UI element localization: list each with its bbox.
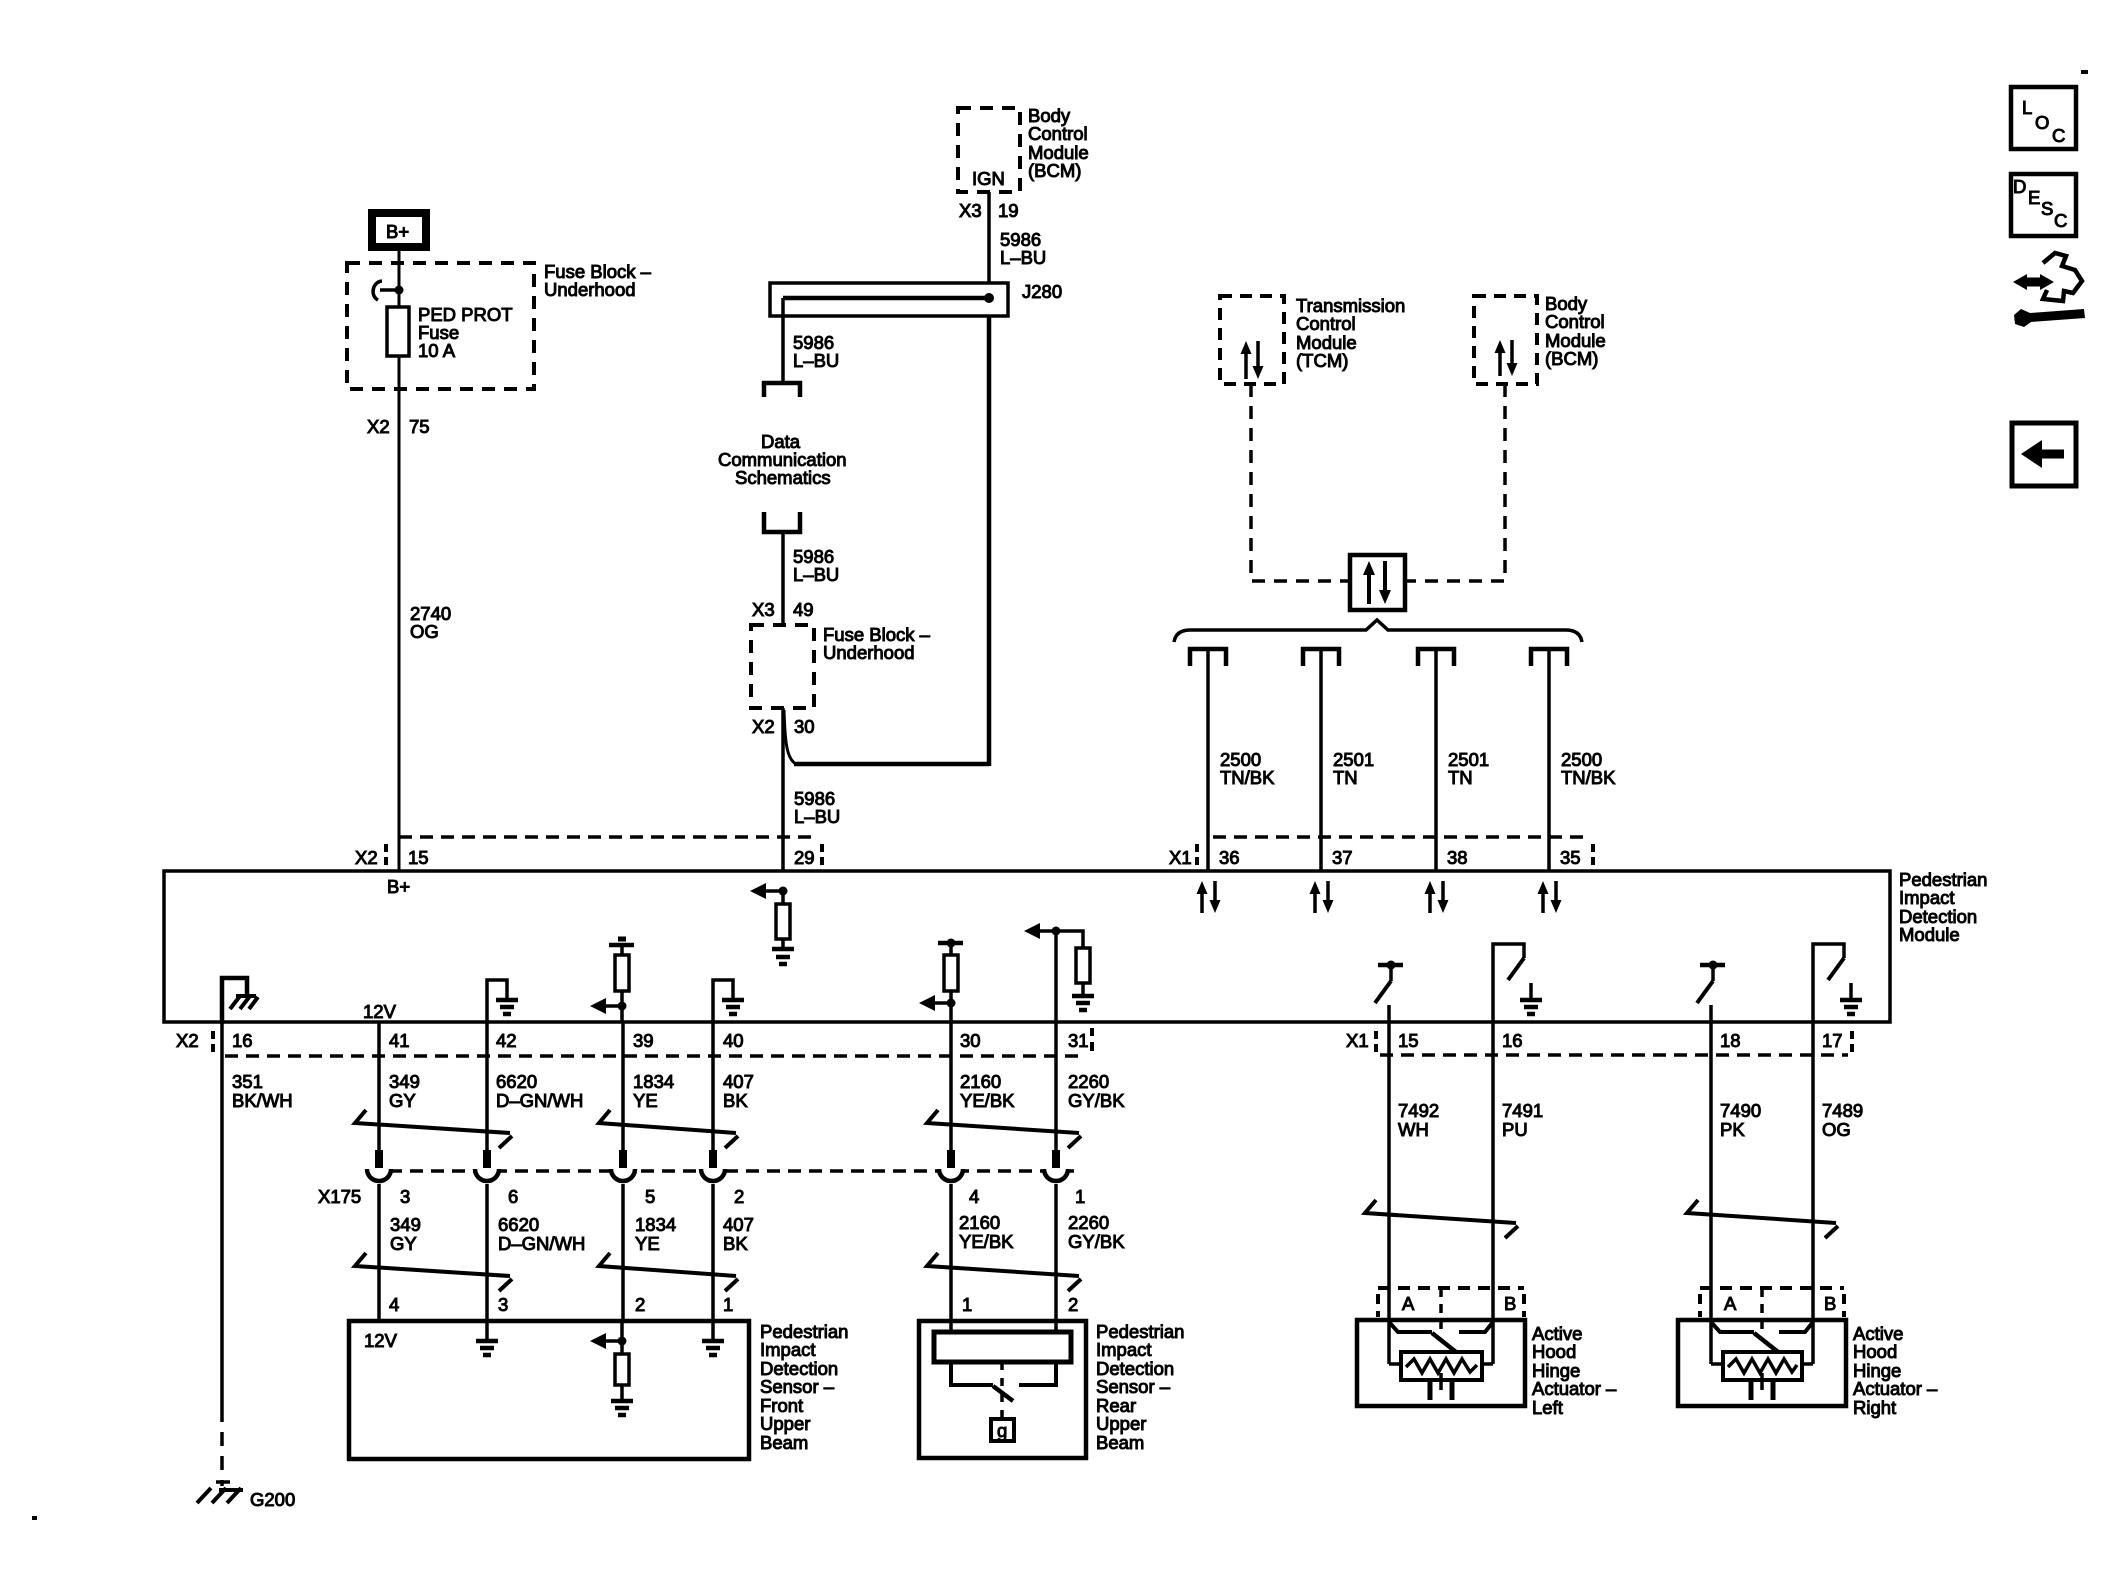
node J280 junction dot <box>984 293 994 303</box>
label Active Hood Hinge Actuator Left <box>1532 1323 1617 1418</box>
brace for serial data bus <box>1174 620 1582 642</box>
wire label 5986 L-BU (second) <box>793 332 839 371</box>
svg-text:YE: YE <box>635 1233 660 1254</box>
connector X2 top row (pins 15, 29) <box>355 837 822 868</box>
wire 7492 WH pin 15 <box>1389 1022 1439 1322</box>
off-page connector pin 36 branch <box>1190 649 1226 666</box>
twisted pair crossover 30-31 lower <box>927 1253 1081 1291</box>
twisted pair crossover 41-42 lower <box>355 1253 512 1291</box>
svg-text:5: 5 <box>645 1186 655 1207</box>
svg-text:PU: PU <box>1502 1119 1528 1140</box>
svg-text:10 A: 10 A <box>418 340 456 361</box>
svg-text:49: 49 <box>793 599 814 620</box>
front sensor pin 2 driver <box>590 1321 633 1415</box>
svg-text:B+: B+ <box>386 221 409 242</box>
label Pedestrian Impact Detection Sensor Rear Upper Beam <box>1096 1321 1184 1453</box>
svg-text:TN/BK: TN/BK <box>1561 767 1616 788</box>
svg-text:1: 1 <box>723 1294 733 1315</box>
svg-text:L–BU: L–BU <box>1000 247 1046 268</box>
svg-text:Schematics: Schematics <box>735 467 831 488</box>
connector X175 labels <box>318 1186 1085 1207</box>
label Body Control Module (BCM) <box>1028 105 1089 181</box>
svg-text:X2: X2 <box>355 847 378 868</box>
svg-text:38: 38 <box>1447 847 1468 868</box>
svg-text:39: 39 <box>633 1030 654 1051</box>
connector X175 terminal pin 4 <box>939 1150 963 1183</box>
module internal: pin 30 driver <box>919 939 963 1023</box>
rear sensor internal legs <box>951 1362 1056 1385</box>
fuse PED PROT 10A <box>387 304 513 361</box>
svg-text:Control: Control <box>1028 123 1088 144</box>
page mark top right <box>2081 70 2088 74</box>
right actuator igniter contacts <box>1711 1322 1813 1352</box>
svg-text:Control: Control <box>1545 311 1605 332</box>
svg-text:OG: OG <box>1822 1119 1851 1140</box>
svg-text:Underhood: Underhood <box>823 642 915 663</box>
module internal: pin 15 squib switch <box>1375 961 1403 1023</box>
right actuator squib resistor <box>1711 1322 1813 1380</box>
connector X1 top row (pins 36 37 38 35) <box>1169 837 1593 868</box>
pedestrian impact detection sensor rear box <box>919 1321 1086 1458</box>
wire 7491 PU pin 16 <box>1493 1022 1543 1322</box>
serial data gateway box <box>1350 555 1405 610</box>
wire 2260 GY/BK to rear sensor pin 2 <box>1056 1184 1125 1332</box>
svg-text:Sensor –: Sensor – <box>760 1376 835 1397</box>
svg-text:15: 15 <box>408 847 429 868</box>
rear sensor dashed actuate link <box>1000 1362 1004 1419</box>
svg-text:C: C <box>2054 210 2067 231</box>
svg-text:Impact: Impact <box>1899 887 1955 908</box>
svg-text:D–GN/WH: D–GN/WH <box>498 1233 585 1254</box>
module internal: pin 40 ground <box>713 980 744 1022</box>
wire 407 BK pin 40 <box>713 1022 754 1152</box>
connector X175 terminal pin 5 <box>611 1150 635 1183</box>
svg-text:TN/BK: TN/BK <box>1220 767 1275 788</box>
svg-text:41: 41 <box>389 1030 410 1051</box>
svg-text:BK: BK <box>723 1233 748 1254</box>
module internal: serial arrows pin 35 <box>1538 881 1562 913</box>
svg-text:16: 16 <box>232 1030 253 1051</box>
svg-text:Actuator –: Actuator – <box>1853 1378 1938 1399</box>
svg-text:A: A <box>1724 1293 1737 1314</box>
right actuator gas generator prongs <box>1751 1373 1773 1400</box>
wire 349 GY to sensor pin 4 <box>379 1184 421 1321</box>
connector X3 pin 19 label <box>959 200 1019 221</box>
label Body Control Module (BCM) right <box>1545 293 1606 369</box>
wire B+ feed to fuse <box>398 251 401 308</box>
label Data Communication Schematics <box>718 431 847 488</box>
wire 2160 YE/BK to rear sensor pin 1 <box>951 1184 1014 1332</box>
svg-text:Right: Right <box>1853 1397 1896 1418</box>
left actuator connector dashed box <box>1378 1288 1524 1336</box>
svg-text:19: 19 <box>998 200 1019 221</box>
svg-text:349: 349 <box>390 1214 421 1235</box>
svg-text:WH: WH <box>1398 1119 1429 1140</box>
svg-text:Hood: Hood <box>1853 1341 1897 1362</box>
module internal: serial arrows pin 38 <box>1425 881 1449 913</box>
rear sensor pin labels 1 2 <box>962 1294 1078 1315</box>
wire 2740 OG from fuse to module pin 15 <box>399 356 451 871</box>
BCM serial data arrows <box>1495 340 1518 376</box>
svg-text:B+: B+ <box>387 876 410 897</box>
svg-text:D: D <box>2013 176 2026 197</box>
svg-text:35: 35 <box>1560 847 1581 868</box>
svg-text:A: A <box>1402 1293 1415 1314</box>
right actuator connector dashed box <box>1700 1288 1844 1336</box>
svg-text:B: B <box>1504 1293 1516 1314</box>
label Fuse Block - Underhood (second) <box>823 624 931 663</box>
connector X175 terminal pin 6 <box>475 1150 499 1183</box>
svg-text:BK/WH: BK/WH <box>232 1090 293 1111</box>
svg-text:GY: GY <box>390 1233 417 1254</box>
svg-text:YE/BK: YE/BK <box>960 1090 1015 1111</box>
off-page connector pin 38 branch <box>1418 649 1454 666</box>
svg-text:2260: 2260 <box>1068 1212 1109 1233</box>
svg-text:YE: YE <box>633 1090 658 1111</box>
label Fuse Block - Underhood <box>544 261 652 300</box>
svg-text:17: 17 <box>1822 1030 1843 1051</box>
svg-text:6620: 6620 <box>496 1071 537 1092</box>
svg-text:(BCM): (BCM) <box>1028 160 1081 181</box>
connector X3 pin 49 label <box>752 599 814 620</box>
TCM serial data arrows <box>1241 341 1264 379</box>
rear sensor element bar <box>934 1332 1071 1362</box>
module internal: pin 29 termination <box>750 883 794 964</box>
svg-text:7491: 7491 <box>1502 1100 1543 1121</box>
off-page connector pin 35 branch <box>1531 649 1567 666</box>
wire 2160 YE/BK pin 30 <box>951 1022 1015 1152</box>
module internal: pin 16 switch to ground <box>1493 944 1542 1022</box>
svg-text:29: 29 <box>794 847 815 868</box>
svg-text:Beam: Beam <box>760 1432 808 1453</box>
svg-text:X1: X1 <box>1346 1030 1369 1051</box>
svg-text:TN: TN <box>1448 767 1473 788</box>
left actuator igniter contacts <box>1389 1322 1493 1352</box>
svg-text:Impact: Impact <box>1096 1339 1152 1360</box>
wire 2501 TN to pin 38 <box>1436 651 1489 871</box>
wire 2500 TN/BK to pin 36 <box>1208 651 1275 871</box>
connector X1 bottom row labels <box>1346 1030 1852 1055</box>
svg-text:(TCM): (TCM) <box>1296 350 1348 371</box>
wire 2260 GY/BK pin 31 <box>1056 1022 1125 1152</box>
svg-text:PK: PK <box>1720 1119 1745 1140</box>
off-page connector pin 37 branch <box>1303 649 1339 666</box>
label Pedestrian Impact Detection Module <box>1899 869 1987 945</box>
svg-text:Control: Control <box>1296 313 1356 334</box>
icon DESC button <box>2011 174 2076 236</box>
wire from J280 down-left branch <box>781 298 785 381</box>
label Transmission Control Module (TCM) <box>1296 295 1405 371</box>
svg-text:349: 349 <box>389 1071 420 1092</box>
wire 407 BK to sensor pin 1 <box>713 1184 754 1321</box>
connector X2 pin 30 label <box>752 716 815 737</box>
svg-text:12V: 12V <box>364 1330 398 1351</box>
wire J280 vertical drop <box>987 316 992 766</box>
icon harness repair (arrow and wrench) <box>2013 253 2085 327</box>
svg-text:Upper: Upper <box>760 1413 810 1434</box>
connector X175 terminal pin 2 <box>701 1150 725 1183</box>
svg-text:GY: GY <box>389 1090 416 1111</box>
svg-text:Beam: Beam <box>1096 1432 1144 1453</box>
off-page connector (from data link, lower) <box>764 512 800 532</box>
rear sensor g-sensor box <box>991 1419 1014 1441</box>
svg-text:2: 2 <box>1068 1294 1078 1315</box>
connector X2 pin 75 label <box>367 416 430 437</box>
svg-text:2160: 2160 <box>959 1212 1000 1233</box>
rear sensor switch blade <box>993 1386 1013 1401</box>
module internal: pin 17 switch to ground <box>1813 944 1862 1022</box>
pedestrian impact detection sensor front box <box>349 1321 749 1459</box>
svg-text:15: 15 <box>1398 1030 1419 1051</box>
label Pedestrian Impact Detection Sensor Front Upper Beam <box>760 1321 848 1453</box>
svg-text:OG: OG <box>410 621 439 642</box>
fuse block underhood dashed box (second) <box>751 625 814 708</box>
module internal: serial arrows pin 37 <box>1310 881 1334 913</box>
svg-text:2160: 2160 <box>960 1071 1001 1092</box>
svg-text:7492: 7492 <box>1398 1100 1439 1121</box>
svg-text:G200: G200 <box>250 1489 295 1510</box>
svg-text:18: 18 <box>1720 1030 1741 1051</box>
svg-text:1: 1 <box>962 1294 972 1315</box>
connector X175 terminal pin 1 <box>1044 1150 1068 1183</box>
left actuator gas generator prongs <box>1430 1373 1452 1400</box>
left actuator squib resistor <box>1389 1322 1493 1380</box>
svg-text:3: 3 <box>498 1294 508 1315</box>
svg-text:7489: 7489 <box>1822 1100 1863 1121</box>
svg-text:BK: BK <box>723 1090 748 1111</box>
svg-text:4: 4 <box>969 1186 979 1207</box>
wire 7490 PK pin 18 <box>1711 1022 1761 1322</box>
svg-text:TN: TN <box>1333 767 1358 788</box>
svg-text:Impact: Impact <box>760 1339 816 1360</box>
pedestrian impact detection module box <box>164 871 1890 1022</box>
wire from data comm to fuse block <box>781 532 785 625</box>
wire 2500 TN/BK to pin 35 <box>1549 651 1616 871</box>
twisted pair crossover 18-17 <box>1687 1200 1838 1238</box>
svg-text:36: 36 <box>1219 847 1240 868</box>
page mark bottom left <box>32 1516 37 1520</box>
battery B+ terminal box <box>372 213 426 247</box>
body control module BCM dashed box (top) <box>958 108 1020 192</box>
svg-text:C: C <box>2052 125 2065 146</box>
svg-text:1834: 1834 <box>635 1214 676 1235</box>
svg-text:X2: X2 <box>367 416 390 437</box>
svg-text:2: 2 <box>734 1186 744 1207</box>
svg-text:X3: X3 <box>752 599 775 620</box>
svg-text:L–BU: L–BU <box>794 806 840 827</box>
wire horizontal link to J280 vertical <box>794 762 989 767</box>
connector X2 bottom row labels <box>176 1028 1092 1056</box>
wire 349 GY pin 41 <box>379 1022 420 1152</box>
svg-text:40: 40 <box>723 1030 744 1051</box>
svg-text:Upper: Upper <box>1096 1413 1146 1434</box>
wire 1834 YE to sensor pin 2 <box>623 1184 676 1321</box>
front sensor pin 3 ground <box>476 1321 498 1355</box>
svg-text:L–BU: L–BU <box>793 350 839 371</box>
svg-text:2260: 2260 <box>1068 1071 1109 1092</box>
svg-text:Hood: Hood <box>1532 1341 1576 1362</box>
svg-text:B: B <box>1824 1293 1836 1314</box>
module internal: pin 31 termination <box>1024 923 1094 1022</box>
fuse block underhood dashed box <box>347 263 534 389</box>
icon back arrow button <box>2012 423 2076 486</box>
svg-text:407: 407 <box>723 1214 754 1235</box>
svg-text:2: 2 <box>635 1294 645 1315</box>
wire label 5986 L-BU (third) <box>793 546 839 585</box>
wire junction curve to J280 branch <box>784 710 796 764</box>
svg-text:16: 16 <box>1502 1030 1523 1051</box>
svg-text:7490: 7490 <box>1720 1100 1761 1121</box>
transmission control module TCM dashed box <box>1220 296 1284 384</box>
svg-text:407: 407 <box>723 1071 754 1092</box>
front sensor pin 1 ground <box>702 1321 724 1355</box>
svg-text:L–BU: L–BU <box>793 564 839 585</box>
svg-text:O: O <box>2035 112 2049 133</box>
svg-text:351: 351 <box>232 1071 263 1092</box>
dashed network wire from TCM <box>1251 384 1348 581</box>
svg-text:42: 42 <box>496 1030 517 1051</box>
svg-text:Actuator –: Actuator – <box>1532 1378 1617 1399</box>
svg-text:6: 6 <box>508 1186 518 1207</box>
icon LOC button <box>2011 87 2076 149</box>
dashed network wire from BCM <box>1407 384 1505 581</box>
right actuator box <box>1678 1320 1846 1406</box>
svg-text:1: 1 <box>1075 1186 1085 1207</box>
svg-text:(BCM): (BCM) <box>1545 348 1598 369</box>
svg-text:g: g <box>997 1420 1007 1441</box>
twisted pair crossover 15-16 <box>1365 1200 1518 1238</box>
svg-text:J280: J280 <box>1022 281 1062 302</box>
svg-text:X1: X1 <box>1169 847 1192 868</box>
svg-text:Module: Module <box>1899 924 1960 945</box>
body control module BCM dashed box (right) <box>1474 296 1537 384</box>
svg-text:30: 30 <box>960 1030 981 1051</box>
fuse clip hook <box>373 281 382 300</box>
twisted pair crossover 30-31 upper <box>927 1110 1081 1148</box>
wire 7489 OG pin 17 <box>1813 1022 1863 1322</box>
front sensor pin labels 4 3 2 1 <box>389 1294 733 1315</box>
svg-text:S: S <box>2041 198 2053 219</box>
module internal: pin 39 driver <box>590 939 634 1022</box>
node fuse feed junction <box>380 286 404 295</box>
wire 5986 L-BU to module pin 29 <box>783 708 840 871</box>
svg-text:X175: X175 <box>318 1186 361 1207</box>
svg-text:D–GN/WH: D–GN/WH <box>496 1090 583 1111</box>
twisted pair crossover 39-40 lower <box>599 1253 738 1291</box>
svg-text:6620: 6620 <box>498 1214 539 1235</box>
svg-text:75: 75 <box>409 416 430 437</box>
svg-text:Underhood: Underhood <box>544 279 636 300</box>
svg-text:4: 4 <box>389 1294 399 1315</box>
wire 6620 D-GN/WH pin 42 <box>487 1022 583 1152</box>
wire 6620 D-GN/WH to sensor pin 3 <box>487 1184 585 1321</box>
svg-text:Left: Left <box>1532 1397 1563 1418</box>
svg-text:12V: 12V <box>363 1001 397 1022</box>
svg-text:L: L <box>2022 97 2032 118</box>
module internal: pin 42 ground <box>487 980 518 1022</box>
wire 351 BK/WH pin 16 to G200 <box>222 1022 293 1486</box>
left actuator box <box>1357 1320 1525 1406</box>
ground G200 <box>197 1482 295 1510</box>
off-page connector (to data link, upper) <box>764 383 800 397</box>
svg-text:X3: X3 <box>959 200 982 221</box>
svg-text:X2: X2 <box>176 1030 199 1051</box>
svg-text:GY/BK: GY/BK <box>1068 1090 1125 1111</box>
module internal: pin 18 squib switch <box>1697 961 1725 1023</box>
svg-text:IGN: IGN <box>972 168 1005 189</box>
wire label 5986 L-BU (top) <box>1000 229 1046 268</box>
connector X175 dashed line <box>368 1169 1077 1173</box>
connector X175 terminal pin 3 <box>367 1150 391 1183</box>
svg-text:GY/BK: GY/BK <box>1068 1231 1125 1252</box>
twisted pair crossover 41-42 upper <box>355 1110 512 1148</box>
svg-text:X2: X2 <box>752 716 775 737</box>
svg-text:37: 37 <box>1332 847 1353 868</box>
label Active Hood Hinge Actuator Right <box>1853 1323 1938 1418</box>
module internal: pin 16 chassis ground <box>222 978 258 1022</box>
wire 2501 TN to pin 37 <box>1321 651 1374 871</box>
svg-text:31: 31 <box>1068 1030 1089 1051</box>
svg-text:Sensor –: Sensor – <box>1096 1376 1171 1397</box>
svg-text:1834: 1834 <box>633 1071 674 1092</box>
svg-text:30: 30 <box>794 716 815 737</box>
wire 1834 YE pin 39 <box>623 1022 674 1152</box>
twisted pair crossover 39-40 upper <box>599 1110 738 1148</box>
svg-text:3: 3 <box>400 1186 410 1207</box>
wire BCM IGN output <box>987 192 991 283</box>
svg-text:YE/BK: YE/BK <box>959 1231 1014 1252</box>
splice bus J280 <box>770 281 1062 316</box>
module internal: serial arrows pin 36 <box>1197 881 1221 913</box>
svg-text:E: E <box>2028 187 2040 208</box>
